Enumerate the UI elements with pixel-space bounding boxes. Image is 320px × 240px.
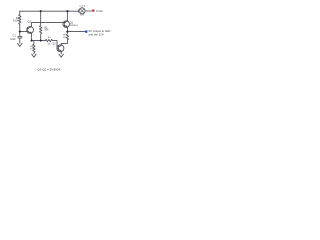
svg-text:and the 12V: and the 12V (89, 33, 104, 37)
wire output (67, 31, 85, 33)
wire emitter node (32, 40, 46, 42)
node junction emitter (31, 40, 33, 42)
terminal 9V positive (red) (92, 10, 94, 12)
svg-text:R4: R4 (48, 37, 52, 39)
svg-text:Q3: Q3 (52, 43, 56, 46)
wire Q1 collector (32, 22, 41, 26)
ground (below Q3) (59, 54, 63, 57)
node junction R1-C1-base (19, 31, 21, 33)
svg-text:Lamp: Lamp (80, 6, 86, 8)
node junction R2 bottom (40, 40, 42, 42)
svg-text:Q1: Q1 (28, 20, 32, 23)
emitter arrow Q1 (30, 32, 32, 34)
wire Q1 collector to Q2 base (41, 21, 65, 23)
svg-text:C1: C1 (13, 34, 17, 37)
svg-text:Q1-Q2 = 2N3904: Q1-Q2 = 2N3904 (37, 67, 60, 71)
node junction rail-R2 (40, 10, 42, 12)
wire Q3 emitter (60, 51, 62, 54)
svg-text:10uF: 10uF (10, 38, 16, 41)
resistor R2 (40, 11, 42, 40)
wire Q3 collector (61, 43, 67, 45)
lamp L1 (79, 8, 85, 14)
lamp plus tick (77, 10, 79, 13)
svg-text:30R: 30R (80, 14, 84, 16)
lamp filament X (80, 9, 83, 12)
svg-text:9 Volt: 9 Volt (96, 9, 103, 13)
resistor R1 (19, 11, 21, 36)
emitter arrow Q2 (66, 25, 67, 27)
transistor Q3 (57, 45, 64, 52)
transistor Q2 (63, 21, 70, 28)
wire Q1 emitter (31, 33, 33, 40)
resistor R4 horizontal (45, 39, 58, 48)
ground (below C1) (18, 43, 23, 46)
wire Q2 collector (66, 11, 68, 21)
node junction rail-Q2 collector (66, 10, 68, 12)
svg-text:10K: 10K (44, 30, 49, 32)
capacitor C1 (18, 37, 22, 44)
ground (below R3) (32, 54, 36, 57)
svg-text:2N3904: 2N3904 (70, 25, 78, 27)
wire top rail (20, 10, 79, 12)
transistor Q1 (27, 27, 34, 34)
svg-text:100K: 100K (13, 19, 19, 23)
emitter arrow Q3 (60, 50, 61, 52)
node junction Q2 emitter output (66, 31, 68, 33)
wire rail to red terminal (85, 10, 92, 12)
svg-text:1K: 1K (48, 44, 51, 46)
resistor R5 (66, 32, 68, 44)
wire Q2 emitter (66, 27, 68, 32)
terminal output (blue) (85, 30, 87, 32)
resistor R3 (33, 41, 35, 54)
wire base Q1 (20, 31, 28, 33)
